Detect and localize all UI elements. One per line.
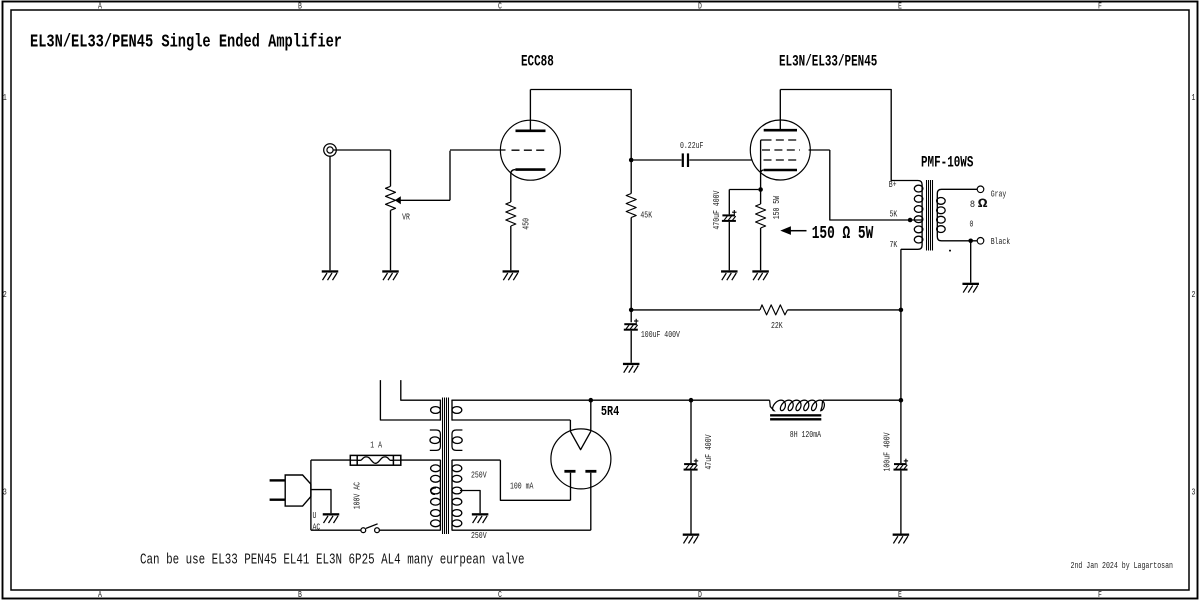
svg-text:EL3N/EL33/PEN45: EL3N/EL33/PEN45 — [779, 53, 877, 71]
svg-text:2: 2 — [3, 289, 7, 300]
svg-text:0.22uF: 0.22uF — [680, 140, 703, 151]
svg-text:Black: Black — [991, 236, 1011, 247]
svg-text:3: 3 — [3, 486, 7, 497]
svg-text:450: 450 — [521, 218, 532, 230]
svg-text:8: 8 — [970, 199, 975, 211]
svg-text:PMF-10WS: PMF-10WS — [921, 153, 973, 171]
svg-text:8H 120mA: 8H 120mA — [790, 429, 822, 440]
svg-text:VR: VR — [402, 212, 410, 223]
svg-text:47uF 400V: 47uF 400V — [703, 434, 714, 469]
svg-text:AC: AC — [313, 522, 321, 533]
svg-text:22K: 22K — [771, 320, 783, 331]
svg-text:A: A — [98, 0, 102, 11]
svg-text:7K: 7K — [890, 239, 898, 250]
svg-text:100 mA: 100 mA — [510, 481, 534, 492]
svg-text:100uF 400V: 100uF 400V — [882, 432, 893, 471]
svg-text:0: 0 — [970, 219, 974, 230]
svg-text:B: B — [298, 589, 302, 600]
svg-text:250V: 250V — [471, 470, 487, 481]
svg-text:Can be use EL33 PEN45 EL41 EL3: Can be use EL33 PEN45 EL41 EL3N 6P25 AL4… — [140, 553, 525, 569]
svg-text:470uF 400V: 470uF 400V — [711, 190, 722, 229]
svg-text:1: 1 — [1191, 92, 1195, 103]
svg-text:B: B — [298, 0, 302, 11]
svg-text:C: C — [498, 0, 502, 11]
svg-text:5R4: 5R4 — [601, 405, 619, 420]
svg-text:2nd Jan 2024 by Lagartosan: 2nd Jan 2024 by Lagartosan — [1071, 560, 1174, 571]
svg-text:A: A — [98, 589, 102, 600]
svg-text:F: F — [1098, 0, 1102, 11]
svg-text:F: F — [1098, 589, 1102, 600]
svg-text:D: D — [698, 589, 702, 600]
svg-text:Ω: Ω — [978, 197, 988, 211]
svg-text:150 5W: 150 5W — [771, 196, 782, 220]
svg-text:3: 3 — [1191, 486, 1195, 497]
svg-text:E: E — [898, 0, 902, 11]
svg-text:2: 2 — [1191, 289, 1195, 300]
svg-text:Gray: Gray — [991, 189, 1007, 200]
svg-text:C: C — [498, 589, 502, 600]
svg-text:100V AC: 100V AC — [352, 482, 363, 510]
svg-text:45K: 45K — [640, 210, 652, 221]
svg-text:EL3N/EL33/PEN45 Single Ended: EL3N/EL33/PEN45 Single Ended Amplifier — [30, 32, 342, 53]
svg-text:E: E — [898, 589, 902, 600]
svg-text:1: 1 — [3, 92, 7, 103]
svg-text:ECC88: ECC88 — [521, 53, 554, 71]
svg-text:5K: 5K — [890, 209, 898, 220]
svg-text:D: D — [698, 0, 702, 11]
svg-text:100uF 400V: 100uF 400V — [641, 329, 680, 340]
svg-text:U: U — [313, 510, 317, 521]
svg-text:1 A: 1 A — [370, 440, 382, 451]
svg-text:250V: 250V — [471, 530, 487, 541]
svg-text:B+: B+ — [889, 179, 897, 190]
svg-text:150 Ω 5W: 150 Ω 5W — [812, 224, 874, 244]
